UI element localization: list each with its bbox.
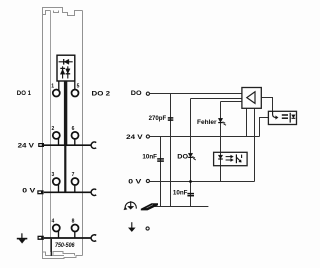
wire band from box down to 24V rail: [64, 81, 67, 145]
wire chassis earth line: [155, 206, 209, 208]
wire DO-LED branch vertical: [190, 99, 192, 207]
contact 3: [53, 178, 60, 185]
contact 2: [53, 132, 60, 139]
svg-text:7: 7: [72, 172, 75, 178]
stub contact 7 to 0V rail: [74, 185, 76, 192]
wire 270pF branch vertical: [170, 94, 172, 207]
wire 0V line: [150, 181, 255, 183]
wire feedback opto to 24V: [260, 118, 269, 137]
wire DO line to driver: [150, 93, 242, 95]
capacitor C3 10nF: [187, 194, 194, 196]
0V rail female connector square: [37, 190, 43, 194]
svg-text:24 V: 24 V: [126, 134, 143, 141]
stub contact 3 to 0V rail: [58, 184, 60, 192]
svg-text:4: 4: [52, 219, 55, 225]
svg-text:10nF: 10nF: [142, 155, 157, 161]
contact 6: [72, 132, 79, 139]
DO status LED: [188, 153, 196, 160]
wire driver feedback line: [191, 98, 242, 100]
24V power jumper rail: [44, 144, 91, 146]
module housing right edge: [82, 11, 84, 256]
svg-text:6: 6: [72, 126, 75, 132]
wire Fehler branch horizontal: [221, 101, 242, 103]
0V rail male connector C: [91, 189, 96, 195]
wire stub box to contact 5: [74, 81, 76, 90]
svg-text:8: 8: [72, 219, 75, 225]
svg-text:0 V: 0 V: [128, 179, 142, 186]
contact 5: [72, 90, 79, 97]
junction node on 0V line: [189, 180, 192, 183]
earth terminal row 4: [146, 227, 149, 230]
stub contact 8 to earth rail: [74, 232, 76, 239]
svg-text:DO 2: DO 2: [92, 90, 111, 97]
wire stub box to contact 1: [58, 81, 60, 90]
chassis earth slab symbol: [141, 203, 158, 210]
stub contact 2 to 24V rail: [58, 138, 60, 145]
earth rail female connector square: [38, 236, 44, 240]
svg-text:0 V: 0 V: [22, 188, 36, 195]
module housing inner contour line: [50, 11, 52, 253]
svg-text:10nF: 10nF: [173, 191, 188, 197]
feedback optocoupler U2: [268, 111, 296, 124]
0V power jumper rail: [44, 191, 91, 193]
svg-text:270pF: 270pF: [149, 116, 167, 122]
contact 8: [72, 225, 79, 232]
svg-text:1: 1: [51, 83, 54, 89]
DO terminal: [146, 92, 149, 95]
svg-text:5: 5: [77, 83, 80, 89]
svg-text:DO: DO: [131, 90, 142, 97]
svg-text:Fehler: Fehler: [197, 119, 217, 126]
LED box on module: [57, 55, 75, 81]
module housing bottom foot: [43, 252, 83, 259]
svg-text:DO: DO: [177, 154, 188, 161]
earth rail male connector C: [91, 235, 96, 241]
LED pair D2 D3 in box: [60, 66, 70, 78]
contact 7: [72, 178, 79, 185]
input optocoupler U3: [214, 152, 248, 165]
wire 10nF branch vertical: [160, 137, 162, 207]
24V rail male connector C: [91, 142, 96, 148]
stub contact 4 to earth rail: [58, 231, 60, 238]
Fehler LED: [218, 118, 226, 125]
stub contact 6 to 24V rail: [74, 139, 76, 145]
svg-text:2: 2: [52, 126, 55, 132]
wire 24V line: [150, 136, 260, 138]
svg-text:3: 3: [52, 172, 55, 178]
LED D1 horizontal diode in box: [59, 59, 73, 65]
capacitor C2 10nF: [157, 159, 164, 161]
contact 4: [53, 225, 60, 232]
module housing top latch: [43, 8, 83, 16]
wire driver output to feedback opto: [261, 98, 272, 112]
earth arrow symbol row 4: [128, 222, 135, 232]
earth power jumper rail: [44, 237, 91, 239]
svg-text:750-506: 750-506: [55, 242, 75, 249]
svg-text:DO 1: DO 1: [17, 90, 31, 97]
24V rail female connector square: [38, 143, 44, 147]
module housing left edge: [42, 15, 44, 253]
contact 1: [53, 90, 60, 97]
earth symbol left of module: [17, 233, 28, 243]
functional earth symbol: [124, 201, 136, 210]
earth wire from rail to DIN foot: [50, 238, 52, 256]
0V terminal: [146, 179, 149, 182]
capacitor C1 270pF: [168, 118, 174, 120]
svg-text:24 V: 24 V: [18, 143, 35, 150]
wire driver 0V lead: [254, 108, 256, 181]
24V terminal: [146, 135, 149, 138]
wire band continuing to 0V rail: [64, 145, 66, 192]
wire Fehler branch vertical: [220, 102, 222, 182]
wire driver supply lead: [246, 108, 248, 136]
output driver U1: [242, 88, 261, 109]
